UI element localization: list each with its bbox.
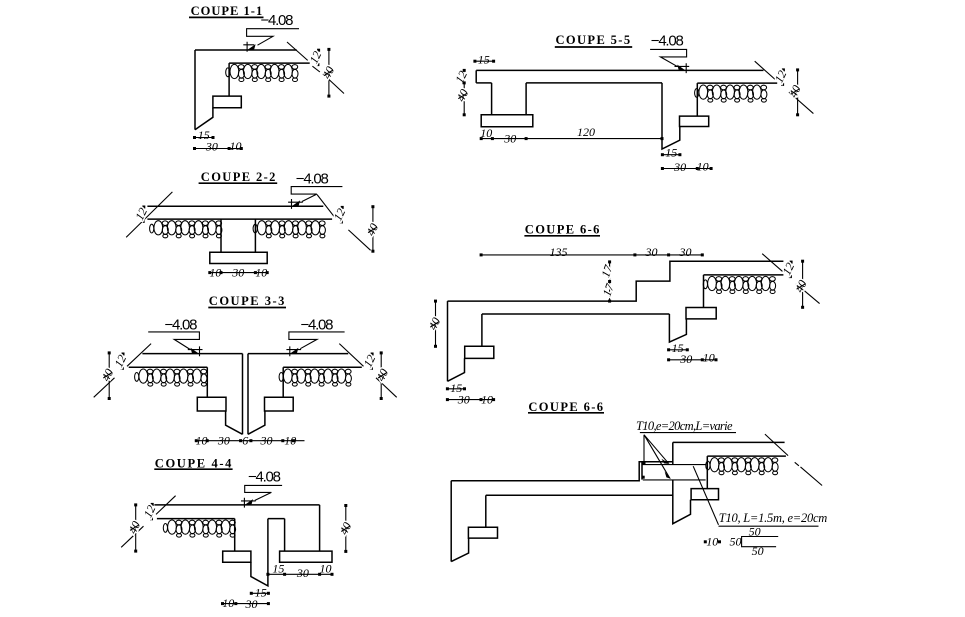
coupe 6-6b left stem — [485, 495, 487, 527]
svg-text:30: 30 — [673, 160, 686, 174]
coupe 4-4 level flag — [245, 485, 282, 500]
svg-text:15: 15 — [478, 53, 490, 67]
coupe 3-3 hatch row right — [279, 369, 351, 386]
coupe 5-5 title underline — [555, 46, 632, 48]
svg-text:10: 10 — [706, 534, 718, 548]
coupe 3-3 dim line 40 right — [380, 353, 382, 399]
coupe 2-2 level flag — [291, 187, 342, 202]
coupe 2-2 web right edge — [254, 219, 256, 252]
coupe 5-5 slab underside right — [697, 82, 777, 84]
coupe 6-6b beam stem — [706, 456, 708, 489]
coupe 3-3 joint left vertical — [242, 354, 244, 435]
svg-text:10: 10 — [230, 139, 242, 153]
coupe 6-6a beam dim 15 — [669, 349, 688, 351]
coupe 6-6b underside line — [486, 494, 673, 496]
coupe 4-4 dim line 10 30 bottom — [223, 603, 269, 605]
coupe 2-2 oblique break line left — [126, 192, 172, 237]
coupe 6-6a left bottom dim 30 10 — [447, 399, 493, 401]
coupe 3-3 left beam break — [226, 411, 243, 434]
coupe 6-6b rebar label top underline — [640, 432, 736, 434]
coupe 6-6a left edge — [447, 301, 449, 381]
coupe 4-4 left footing rectangle — [223, 551, 251, 562]
svg-text:10: 10 — [209, 266, 221, 280]
coupe 6-6a left stem — [481, 314, 483, 346]
coupe 1-1 dim line 40 vertical — [328, 49, 330, 96]
coupe 5-5 beam dim 30 10 — [662, 168, 711, 170]
coupe 4-4 beam stem edge — [234, 519, 236, 552]
coupe 6-6a stair profile top — [448, 261, 784, 301]
svg-text:10: 10 — [481, 392, 493, 406]
svg-text:17: 17 — [600, 281, 618, 298]
coupe 2-2 dim line 10 30 10 — [210, 272, 267, 274]
svg-text:10: 10 — [320, 562, 332, 576]
svg-text:15: 15 — [272, 561, 284, 575]
coupe 3-3 right footing rectangle — [265, 397, 294, 411]
svg-text:30: 30 — [503, 132, 516, 146]
coupe 5-5 beam wall edge and break — [662, 83, 680, 149]
coupe 6-6a beam wall edge and break — [669, 314, 686, 342]
coupe 5-5 dim line 40 right — [797, 70, 799, 115]
coupe 6-6b rebar mesh line lower — [643, 479, 706, 481]
coupe 5-5 beam stem edge — [696, 83, 698, 116]
svg-text:10: 10 — [697, 160, 709, 174]
coupe 6-6b hatch row — [706, 458, 778, 475]
coupe 4-4 beam bottom break — [251, 519, 268, 586]
coupe 6-6a beam footing rectangle — [686, 308, 716, 319]
coupe 1-1 dim line 30 10 — [195, 148, 242, 150]
coupe 1-1 title underline — [189, 16, 264, 18]
coupe 1-1 dim line 15 — [195, 137, 214, 139]
coupe 3-3 oblique break line left — [94, 344, 151, 398]
svg-text:−4.08: −4.08 — [301, 317, 334, 334]
coupe 6-6a dim line 40 left — [435, 301, 437, 346]
coupe 3-3 oblique break line right — [339, 344, 396, 398]
svg-text:−4.08: −4.08 — [165, 317, 198, 334]
coupe 6-6b top tread — [673, 441, 785, 443]
coupe 4-4 dim line 40 right — [345, 506, 347, 552]
svg-text:T10,e=20cm,L=varie: T10,e=20cm,L=varie — [636, 419, 733, 433]
svg-text:COUPE 5-5: COUPE 5-5 — [556, 33, 631, 47]
coupe 1-1 oblique break line right — [287, 42, 344, 94]
coupe 6-6b left footing rectangle — [468, 527, 497, 538]
svg-text:12: 12 — [331, 206, 349, 223]
coupe 6-6b dashed break line right — [765, 434, 822, 485]
coupe 4-4 title underline — [154, 468, 232, 470]
coupe 3-3 slab top line right — [248, 353, 348, 355]
coupe 6-6b wall edge and break — [673, 442, 691, 523]
svg-text:30: 30 — [679, 352, 692, 366]
coupe 6-6b title underline — [528, 412, 604, 414]
svg-text:COUPE 4-4: COUPE 4-4 — [155, 456, 232, 470]
svg-text:30: 30 — [231, 266, 244, 280]
coupe 3-3 slab underside right — [283, 366, 362, 368]
svg-text:40: 40 — [426, 315, 444, 332]
svg-text:12: 12 — [452, 69, 470, 86]
coupe 6-6a dim line 40 right — [802, 261, 804, 307]
svg-text:120: 120 — [577, 125, 595, 139]
svg-text:−4.08: −4.08 — [248, 469, 281, 486]
svg-text:30: 30 — [217, 433, 230, 447]
coupe 5-5 wall left edge — [491, 83, 493, 115]
coupe 3-3 title underline — [208, 307, 286, 309]
coupe 5-5 slab top line — [476, 69, 763, 71]
coupe 6-6a dim line 17 17 — [609, 262, 611, 301]
coupe 6-6a left bottom dim 15 — [447, 388, 464, 390]
coupe 1-1 level flag tick cross — [243, 42, 254, 52]
svg-text:COUPE 3-3: COUPE 3-3 — [209, 294, 285, 308]
svg-text:30: 30 — [645, 245, 658, 259]
svg-text:12: 12 — [132, 206, 150, 223]
svg-text:40: 40 — [454, 87, 472, 104]
coupe 6-6a oblique break line right — [762, 254, 819, 304]
coupe 2-2 oblique break line right — [317, 195, 371, 251]
coupe 5-5 bottom dim line 10 30 120 — [481, 138, 662, 140]
svg-text:15: 15 — [665, 146, 677, 160]
coupe 5-5 beam dim 15 — [662, 154, 680, 156]
svg-text:COUPE 6-6: COUPE 6-6 — [528, 400, 603, 414]
svg-text:T10, L=1.5m, e=20cm: T10, L=1.5m, e=20cm — [719, 511, 828, 525]
coupe 6-6b dim 10 — [704, 540, 707, 543]
coupe 5-5 beam footing rectangle — [680, 116, 709, 126]
coupe 1-1 wall bottom break — [195, 108, 213, 130]
svg-text:30: 30 — [679, 245, 692, 259]
coupe 3-3 right beam stem — [282, 367, 284, 397]
coupe 1-1 slab top line — [195, 49, 297, 51]
coupe 6-6b leader lines — [644, 435, 670, 479]
svg-text:12: 12 — [111, 353, 129, 370]
svg-text:135: 135 — [550, 245, 568, 259]
coupe 6-6b slab top left and riser — [451, 462, 673, 481]
svg-text:50: 50 — [752, 544, 764, 558]
coupe 6-6b beam footing rectangle — [691, 489, 718, 500]
svg-text:6: 6 — [242, 433, 248, 447]
coupe 1-1 footing rectangle — [213, 96, 241, 108]
coupe 4-4 notch right edge — [284, 519, 286, 552]
coupe 6-6a left bottom break — [448, 358, 465, 381]
coupe 4-4 dim line 40 left — [135, 505, 137, 551]
coupe 5-5 dim line 15 top — [475, 60, 494, 62]
coupe 5-5 slab underside middle — [526, 82, 662, 84]
coupe 4-4 slab top line — [154, 504, 319, 506]
coupe 6-6a beam stem — [703, 275, 705, 308]
coupe 4-4 wall right edge — [319, 505, 321, 551]
svg-text:10: 10 — [222, 596, 234, 610]
svg-text:30: 30 — [260, 433, 273, 447]
svg-text:10: 10 — [255, 266, 267, 280]
coupe 5-5 wall right edge — [525, 83, 527, 115]
coupe 3-3 bottom dim line 10 30 6 30 10 — [195, 440, 305, 442]
coupe 3-3 right beam break — [248, 411, 265, 434]
svg-text:COUPE 6-6: COUPE 6-6 — [525, 223, 600, 237]
coupe 2-2 dim 40 strike tick — [368, 227, 377, 233]
svg-text:30: 30 — [457, 393, 470, 407]
svg-text:30: 30 — [205, 140, 218, 154]
svg-text:−4.08: −4.08 — [651, 33, 684, 50]
svg-text:50: 50 — [749, 524, 761, 538]
coupe 1-1 level flag — [247, 29, 299, 46]
coupe 2-2 web left edge — [220, 219, 222, 252]
svg-text:10: 10 — [196, 433, 208, 447]
svg-text:10: 10 — [480, 126, 492, 140]
coupe 3-3 left footing rectangle — [197, 397, 226, 411]
coupe 6-6b rebar mesh line upper — [642, 464, 706, 466]
coupe 1-1 dim 40 strike tick — [324, 70, 333, 76]
coupe 6-6b rebar end vertical — [641, 462, 643, 480]
coupe 6-6a top dim line 135 30 30 — [481, 254, 702, 256]
coupe 6-6a beam dim 30 10 — [669, 359, 716, 361]
coupe 2-2 dim 12 right dots — [341, 206, 344, 209]
coupe 5-5 level flag (mirrored) — [650, 49, 687, 66]
coupe 3-3 slab underside left — [129, 366, 208, 368]
coupe 1-1 dim 12 tick dots — [317, 49, 320, 52]
coupe 4-4 slab underside line — [157, 518, 235, 520]
coupe 4-4 dim line 15 bottom — [251, 592, 268, 594]
coupe 4-4 notch top — [268, 518, 285, 520]
coupe 6-6a slab underside right — [704, 274, 784, 276]
coupe 2-2 slab underside line — [147, 218, 332, 220]
coupe 2-2 footing rectangle — [210, 252, 267, 263]
coupe 5-5 left shelf — [476, 82, 491, 84]
coupe 1-1 level flag arrowhead — [247, 44, 256, 50]
svg-text:COUPE 2-2: COUPE 2-2 — [201, 170, 276, 184]
coupe 2-2 hatch row right — [253, 221, 325, 238]
coupe 1-1 slab underside line — [229, 62, 310, 64]
svg-text:−4.08: −4.08 — [261, 12, 294, 29]
coupe 5-5 dim line 12 40 left — [463, 70, 465, 114]
coupe 1-1 beam stem edge — [228, 63, 230, 96]
coupe 3-3 hatch row left — [135, 369, 207, 386]
coupe 4-4 hatch row — [163, 520, 235, 537]
coupe 3-3 level flag left (mirrored) — [148, 332, 199, 350]
svg-text:10: 10 — [703, 351, 715, 365]
coupe 6-6a title underline — [524, 235, 600, 237]
svg-text:−4.08: −4.08 — [296, 170, 329, 187]
coupe 5-5 left footing rectangle — [481, 115, 533, 127]
coupe 6-6b leader arrowheads — [662, 459, 670, 464]
coupe 5-5 left edge — [475, 70, 477, 83]
coupe 2-2 title underline — [199, 182, 278, 184]
coupe 2-2 level flag tick cross — [288, 199, 303, 209]
coupe 6-6b left bottom break — [451, 538, 468, 562]
coupe 5-5 oblique break line right — [755, 61, 814, 113]
coupe 6-6a underside line — [482, 313, 670, 315]
svg-text:COUPE 1-1: COUPE 1-1 — [191, 4, 263, 18]
coupe 2-2 dim 12 left dots — [142, 206, 145, 209]
coupe 6-6a left footing rectangle — [465, 346, 494, 358]
coupe 1-1 wall left edge — [194, 50, 196, 130]
coupe 6-6b left edge — [450, 481, 452, 562]
coupe 2-2 slab top line — [147, 205, 323, 207]
coupe 3-3 left beam stem — [206, 367, 208, 397]
svg-text:50: 50 — [730, 534, 742, 548]
coupe 6-6b bracket detail — [742, 537, 779, 547]
coupe 2-2 level flag arrowhead — [291, 200, 300, 206]
svg-text:17: 17 — [598, 262, 616, 279]
coupe 5-5 hatch row — [695, 85, 767, 102]
coupe 3-3 level flag right — [289, 332, 345, 349]
coupe 2-2 dim line 40 vertical — [372, 207, 374, 252]
coupe 6-6b rebar label bottom underline — [719, 525, 819, 527]
coupe 3-3 slab top line left — [142, 353, 242, 355]
coupe 4-4 dim line 15 30 10 right — [268, 573, 332, 575]
coupe 6-6b leader line bottom label — [693, 466, 718, 525]
coupe 2-2 hatch row left — [150, 221, 222, 238]
coupe 4-4 right footing rectangle — [280, 551, 332, 562]
svg-text:30: 30 — [296, 566, 309, 580]
svg-text:12: 12 — [361, 353, 379, 370]
svg-text:30: 30 — [245, 597, 258, 611]
coupe 3-3 joint right vertical — [247, 354, 249, 435]
coupe 3-3 dim line 40 left — [108, 353, 110, 399]
coupe 6-6b slab underside right — [707, 455, 786, 457]
coupe 1-1 hollow-block hatch row — [226, 64, 298, 81]
coupe 6-6a hatch row — [703, 276, 775, 293]
svg-text:10: 10 — [284, 433, 296, 447]
coupe 4-4 oblique break line left — [121, 496, 175, 548]
